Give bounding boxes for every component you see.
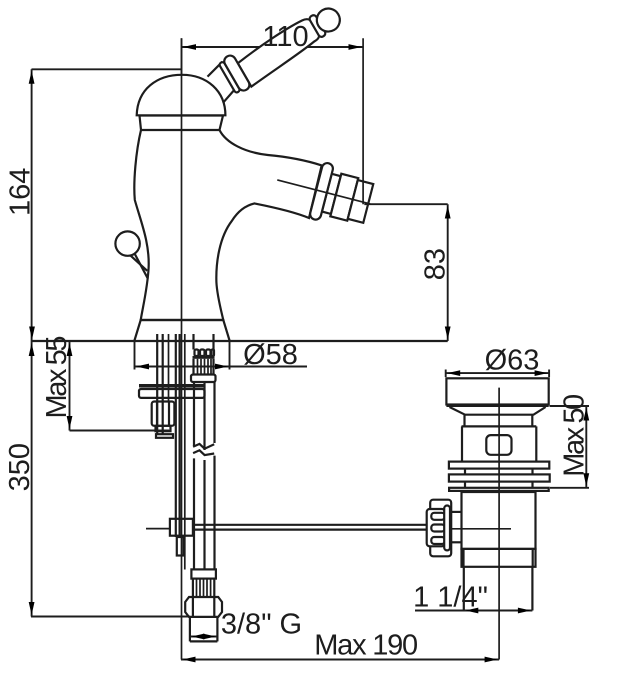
supply hose lower — [193, 458, 195, 569]
body walls between strips — [464, 469, 466, 475]
svg-text:Max 55: Max 55 — [41, 336, 73, 419]
svg-text:Ø58: Ø58 — [243, 339, 298, 371]
handle ball — [313, 4, 344, 35]
supply hose upper — [193, 382, 195, 446]
horizontal pop-up rod — [193, 524, 427, 526]
hose braid — [193, 579, 214, 597]
aux vertical — [168, 334, 170, 402]
svg-text:83: 83 — [420, 248, 452, 280]
clamp block — [170, 519, 193, 536]
handle stem — [208, 62, 223, 77]
spout centerline — [277, 180, 370, 204]
dim 83 — [364, 203, 447, 205]
dim Max 55 — [69, 341, 71, 431]
spout group — [270, 152, 377, 232]
dim Max 50 — [550, 405, 590, 407]
mounting nut — [152, 402, 175, 426]
spout flange ring — [309, 162, 334, 221]
drain upper body — [461, 426, 463, 461]
aerator end cap — [348, 180, 374, 223]
pop-up knob — [115, 231, 139, 255]
pop-up knob stem — [131, 256, 147, 271]
dome — [137, 75, 226, 116]
dim 3/8" G — [190, 636, 218, 638]
svg-text:Ø63: Ø63 — [485, 345, 540, 377]
drain step line — [462, 425, 537, 427]
washer strip 2 — [449, 474, 550, 481]
left stub of rod — [146, 528, 170, 530]
drain flange face — [446, 378, 548, 404]
faucet body — [134, 116, 321, 321]
dim 1 1/4" — [415, 610, 532, 612]
hose nut — [191, 375, 216, 383]
linkage rod tip — [177, 537, 184, 556]
base mounting line — [32, 340, 448, 342]
washer strip 3 (thin) — [449, 488, 549, 491]
dim 164/350 shared line — [31, 69, 33, 616]
overflow hole — [486, 435, 511, 455]
spout tip extension line — [362, 38, 364, 204]
aerator collar — [330, 174, 358, 221]
handle lever group — [235, 3, 348, 87]
faucet center axis — [181, 38, 183, 659]
dim 110 line — [182, 46, 364, 48]
hose nipple threads — [193, 334, 215, 375]
knurled wheel — [430, 500, 451, 557]
drain flange rim (dark) — [446, 405, 548, 407]
wheel stem — [451, 511, 461, 513]
dim Ø58 — [134, 341, 136, 370]
dim Ø63 — [445, 370, 447, 378]
aerator ring — [322, 174, 341, 214]
svg-text:Max 190: Max 190 — [314, 630, 418, 662]
svg-text:3/8" G: 3/8" G — [221, 609, 302, 641]
hose end fitting — [189, 617, 191, 642]
lever body — [235, 16, 324, 86]
gasket (dark) — [139, 384, 206, 388]
faucet axis extension top — [181, 38, 183, 80]
dim Max 190 — [181, 659, 499, 661]
drain neck — [463, 415, 465, 427]
coupling ring — [462, 549, 536, 567]
svg-text:350: 350 — [4, 443, 36, 491]
base trapezoid — [134, 320, 229, 341]
svg-text:164: 164 — [5, 168, 37, 216]
dim 350 bottom extension — [31, 616, 190, 618]
hose ferrule — [191, 569, 216, 578]
washer plate — [139, 389, 205, 398]
rod crossbar — [156, 434, 173, 438]
drain center axis — [498, 388, 500, 660]
handle collar — [218, 54, 252, 96]
aux vertical 2 — [184, 334, 186, 570]
linkage rod pair — [175, 334, 177, 537]
tailpiece — [463, 567, 465, 611]
handle tip ring — [308, 14, 326, 38]
neck line — [141, 129, 220, 131]
drain flange skirt — [450, 407, 546, 415]
rod axis into drain — [451, 528, 511, 530]
svg-text:Max 50: Max 50 — [558, 394, 590, 477]
svg-text:110: 110 — [262, 21, 308, 53]
hose hex nut 3/8 — [185, 597, 222, 617]
drain lower body — [462, 492, 536, 549]
hose break symbol — [193, 444, 214, 449]
washer strip 1 — [449, 462, 549, 469]
pop-up rod pair — [156, 334, 158, 434]
svg-text:1 1/4": 1 1/4" — [413, 581, 488, 613]
